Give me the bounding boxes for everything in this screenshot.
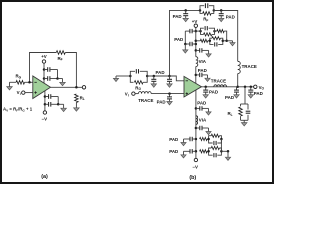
svg-text:PAD: PAD [173,14,183,19]
svg-text:TRACE: TRACE [138,98,153,103]
svg-text:TRACE: TRACE [211,79,226,84]
svg-text:−V: −V [42,117,48,122]
svg-text:PAD: PAD [156,70,166,75]
svg-text:PAD: PAD [174,37,184,42]
svg-text:PAD: PAD [254,91,264,96]
svg-text:PAD: PAD [169,137,179,142]
svg-text:TRACE: TRACE [242,64,257,69]
svg-text:i: i [128,94,129,98]
svg-text:PAD: PAD [197,101,207,106]
svg-text:PAD: PAD [169,149,179,154]
svg-text:+V: +V [192,19,198,24]
svg-text:PAD: PAD [157,100,167,105]
svg-text:i: i [20,92,21,96]
svg-text:+V: +V [41,54,47,59]
svg-text:VIA: VIA [199,59,207,64]
svg-text:(b): (b) [189,175,196,181]
svg-text:(a): (a) [41,174,48,180]
svg-text:−V: −V [192,164,198,169]
svg-text:PAD: PAD [209,89,219,94]
svg-text:PAD: PAD [225,95,235,100]
svg-text:PAD: PAD [198,68,208,73]
svg-text:PAD: PAD [226,14,236,19]
svg-text:VIA: VIA [199,118,207,123]
